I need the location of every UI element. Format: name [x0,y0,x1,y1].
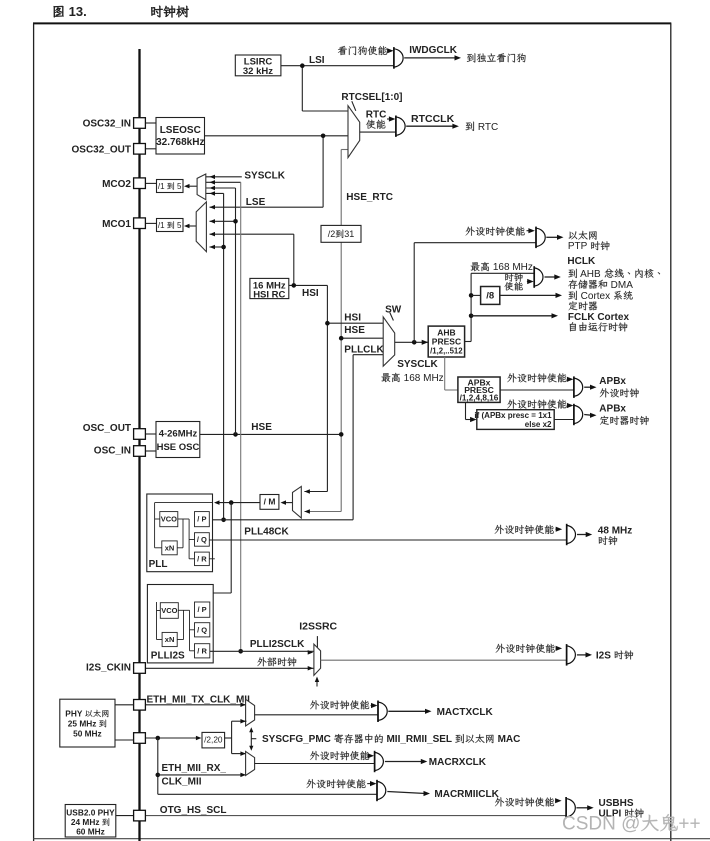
svg-text:/ P: / P [198,605,207,614]
wire OSC32_IN to LSEOSC [146,122,157,124]
label SYSCLK [397,359,438,370]
svg-text:/ M: / M [264,497,276,507]
wire 48M out [577,534,588,536]
svg-text:IWDGCLK: IWDGCLK [409,45,458,56]
svg-text:RTCCLK: RTCCLK [411,113,455,125]
svg-text:MACRMIICLK: MACRMIICLK [434,789,499,800]
pin OSC_IN [134,446,146,457]
wire OSC_OUT to box [146,433,157,435]
label RTC enable [366,110,387,121]
box /M divider [260,495,279,510]
svg-text:31: 31 [344,229,354,239]
wire MACRMIICLK out [387,792,425,794]
and-gate USBHS [566,799,575,817]
box divider /2,20 [202,732,225,748]
svg-text:HSE: HSE [344,325,365,336]
label peripheral clock enable PTP [466,227,525,236]
and-gate MACRMII [377,781,386,799]
svg-text:PLL48CK: PLL48CK [244,527,289,538]
wire AHB down to APBx [444,357,446,390]
label HSI near box [302,288,319,299]
label PLLI2SCLK [250,639,305,650]
arrow TX enable [371,705,373,707]
box MCO1 divider /1 to 5 [157,219,184,232]
wire SYSCLK out of SW [395,341,429,343]
label MACRMIICLK [434,789,499,800]
svg-text:LSEOSC: LSEOSC [160,125,201,136]
wire IWDGCLK out [404,57,457,59]
wire APBx timer out [584,414,592,417]
svg-text:RTCSEL[1:0]: RTCSEL[1:0] [341,92,402,103]
svg-text:/1,2,..512: /1,2,..512 [430,346,463,355]
wire PLLCLK to SW [209,519,353,521]
and-gate MACRX [375,752,384,770]
svg-text:32.768kHz: 32.768kHz [156,137,204,148]
label ETH_MII_RX_ [162,763,227,774]
title figure caption [54,4,87,19]
and-gate 48MHz [567,525,576,543]
wire MCO2 pin to divider [146,182,157,184]
wire PTP out [546,236,559,238]
svg-text:HSE OSC: HSE OSC [157,442,200,453]
label OTG_HS_SCL [160,805,227,816]
svg-text:MCO1: MCO1 [102,219,131,230]
label external clock [257,657,296,666]
select MII_RMII_SEL [250,730,252,749]
PLLI2S internal input route [156,602,158,640]
svg-text:32 kHz: 32 kHz [243,66,273,77]
wire MACRXCLK out [385,761,423,763]
svg-text:PHY: PHY [65,708,84,718]
svg-text:HSI RC: HSI RC [253,290,285,301]
wire LSE [205,135,349,137]
svg-text:13.: 13. [65,4,87,19]
wire OSC32_OUT to LSEOSC [146,148,157,150]
label I2SSRC [299,621,337,633]
label LSI [309,55,325,66]
svg-text:MII_RMII_SEL: MII_RMII_SEL [384,734,455,745]
wire APBx PRESC to if-box [465,402,467,419]
wire ETH TX clk [146,704,247,706]
svg-text:OSC_OUT: OSC_OUT [83,423,131,434]
box VCO PLLI2S [160,603,178,619]
wire HSE_RTC riser [340,150,342,512]
svg-text:if (APBx presc = 1x1: if (APBx presc = 1x1 [474,411,552,420]
box /8 [481,287,500,305]
label peripheral clock enable I2S [496,644,555,653]
svg-text:/2: /2 [328,229,336,239]
pin ETH TX [134,700,146,711]
svg-text:APBx: APBx [599,376,626,387]
watermark CSDN [562,814,701,835]
label USBHS ULPI clock [599,798,634,809]
mux SW system clock [383,317,395,366]
wire HSI net [289,284,328,286]
wire HCLK out [545,276,557,278]
svg-text:OSC32_IN: OSC32_IN [83,119,131,130]
svg-text:168 MHz: 168 MHz [490,262,533,273]
svg-text:RTC: RTC [475,122,498,133]
chip boundary bus [138,49,140,841]
PLLI2S internal spine [178,609,189,611]
arrow RX enable [371,755,372,757]
wire /M to PLL [216,502,260,504]
arrow RMII enable [367,783,372,785]
label APBx peripheral clock [599,376,626,387]
svg-text:CLK_MII: CLK_MII [162,776,202,787]
pin OSC32_IN [134,118,146,129]
box AHB PRESC [428,326,464,357]
block PLL [147,494,213,572]
wire USBHS out [576,807,589,809]
label peripheral clock enable RMII [306,779,365,788]
svg-text:HSI: HSI [344,313,361,324]
mux ETH TX [246,699,255,726]
stub /R PLL [209,558,215,560]
wire MCO PLLI2S riser [206,181,241,183]
svg-text:PLLI2S: PLLI2S [151,651,185,662]
arrow I2S enable [556,647,559,649]
svg-text:LSE: LSE [246,197,266,208]
wire MACTXCLK out [388,710,427,712]
label peripheral clock enable RX [310,751,369,760]
svg-text:Cortex: Cortex [578,291,613,302]
svg-text:ETH_MII_TX_CLK_MII: ETH_MII_TX_CLK_MII [147,694,251,705]
label peripheral clock enable APBx1 [507,373,566,382]
pin OTG_HS [134,810,146,821]
PLL internal input route [155,502,213,504]
wire RX mux out [255,763,375,765]
wire if-box out [554,419,574,421]
and-gate MACTX [378,702,387,720]
select tick RTCSEL [352,101,356,111]
svg-text:MACTXCLK: MACTXCLK [437,707,494,718]
label RTCCLK [411,113,455,125]
svg-text:HCLK: HCLK [567,256,596,267]
svg-text:I2S_CKIN: I2S_CKIN [86,663,131,674]
wire to /8 divider [471,294,481,296]
arrow PTP enable [527,230,530,232]
label MACRXCLK [429,757,487,768]
label watchdog enable [338,46,387,55]
label HSE SW input [344,325,365,336]
svg-text:/2,20: /2,20 [204,735,223,745]
label clock enable HCLK [505,273,523,282]
arrow APBx2 enable [568,405,570,407]
label LSE at MCO1 [246,197,266,208]
mux MCO1 [196,202,206,252]
mux RTC source select [348,106,360,158]
arrow MCO2 mux to divider [187,185,198,187]
label ethernet PTP clock [569,231,597,240]
wire PHY to pin1 [115,704,134,706]
PLL internal spine [178,518,189,520]
wire PLL48CK [209,539,566,541]
label peripheral clock enable TX [310,700,369,709]
wire external clock [146,667,314,669]
svg-text:/8: /8 [486,291,494,302]
svg-text:SW: SW [385,304,402,315]
frame border [33,22,671,24]
arrow USB enable [556,800,558,802]
label HCLK description [567,256,596,267]
and-gate APBx peripheral [574,378,583,396]
arrows MCO2 mux inputs [210,175,216,180]
label ETH_MII_TX_CLK_MII [147,694,251,705]
wire cortex systick [500,294,558,296]
label PLLCLK SW input [344,344,384,355]
wire MCO HSE riser [206,187,236,189]
label HSE_RTC [346,192,393,203]
svg-text:4-26MHz: 4-26MHz [159,428,198,439]
svg-text:PLLCLK: PLLCLK [344,344,384,355]
svg-text:LSI: LSI [309,55,325,66]
and-gate HCLK [534,268,543,286]
wire pin2 to /2,20 [146,737,198,739]
label to independent watchdog [467,53,526,62]
svg-text:SYSCLK: SYSCLK [397,359,438,370]
select tick SW [390,313,394,321]
svg-text:48 MHz: 48 MHz [598,526,632,537]
svg-text:VCO: VCO [161,606,177,615]
wire TX mux out [255,714,378,716]
wire LSI [281,65,394,67]
box /R PLL [195,552,210,566]
svg-text:xN: xN [165,543,175,552]
svg-text:/ P: / P [197,515,206,524]
box /P PLLI2S [195,602,210,617]
mux I2S source [314,644,321,675]
pin MCO1 [134,218,146,229]
label IWDGCLK [409,45,458,56]
label FCLK Cortex [568,312,630,323]
label peripheral clock enable USB [495,797,554,806]
label APBx timer clock [599,404,626,415]
svg-text:++: ++ [678,814,700,835]
svg-text:MAC: MAC [495,734,521,745]
wire OTG_HS_SCL [146,815,567,817]
wire RTCCLK out [406,125,454,127]
pin ETH RX [134,733,146,744]
pin OSC32_OUT [134,144,146,155]
wire USB PHY to pin [116,815,134,817]
wire SW HSE input [341,337,383,339]
wire /M branch to PLLI2S [230,503,232,593]
and-gate IWDG [394,49,403,67]
svg-text:MCO2: MCO2 [102,179,131,190]
box /Q PLL [195,533,210,547]
mux PLL source [293,486,302,518]
mux MCO2 [197,174,206,200]
svg-text:PRESC: PRESC [432,337,461,347]
arrow MCO1 mux to divider [187,225,197,227]
block PLLI2S [147,585,213,663]
svg-text:/1: /1 [158,221,167,230]
svg-text:50 MHz: 50 MHz [73,728,102,738]
svg-text:USB2.0 PHY: USB2.0 PHY [66,807,115,817]
box if APBx presc [477,410,554,430]
svg-text:APBx: APBx [599,404,626,415]
box divider /2 to 31 [321,225,361,242]
wire /2,20 split [225,737,232,739]
wire PLLI2SCLK [210,650,314,652]
svg-text:HSE: HSE [251,422,272,433]
box APBx PRESC [458,377,500,402]
svg-text:168 MHz: 168 MHz [401,373,444,384]
box USB2.0 PHY [65,805,116,838]
arrow HCLK enable [527,281,530,283]
label max 168MHz under SYSCLK [382,373,444,384]
label 48 MHz clock [598,526,632,537]
svg-text:FCLK Cortex: FCLK Cortex [568,312,630,323]
box xN PLLI2S [162,632,177,646]
pin MCO2 [134,178,146,189]
svg-text:25 MHz: 25 MHz [68,718,99,728]
label peripheral clock enable 48M [495,525,554,534]
box HSI RC [250,278,289,298]
wire I2S out [577,654,588,656]
label I2S clock [596,650,633,661]
and-gate RTC [396,117,405,135]
label HSE [251,422,272,433]
arrow stub below I2S mux [316,679,318,687]
and-gate ethernet PTP [536,228,545,246]
and-gate APBx timer [574,405,583,423]
svg-text:5: 5 [175,221,182,230]
label HSI SW input [344,313,361,324]
svg-text:AHB: AHB [578,269,604,280]
box /R PLLI2S [195,644,210,658]
label MACTXCLK [437,707,494,718]
arrow watchdog enable [389,50,391,52]
wire MCO1 pin to divider [146,222,157,224]
svg-text:OSC_IN: OSC_IN [94,446,131,457]
label to RTC [466,122,499,133]
svg-text:/ R: / R [197,646,207,655]
arrows MCO1 mux inputs [210,205,216,210]
label PLL48CK [244,527,289,538]
svg-text:VCO: VCO [161,515,177,524]
wire HSE main [200,433,341,435]
wire FCLK [471,315,554,317]
svg-text:/ R: / R [197,554,207,563]
svg-text:60 MHz: 60 MHz [76,826,105,836]
box /P PLL [195,512,210,527]
svg-text:else x2: else x2 [525,420,552,429]
label peripheral clock enable APBx2 [507,399,566,408]
svg-text:OTG_HS_SCL: OTG_HS_SCL [160,805,227,816]
svg-text:RTC: RTC [366,110,387,121]
box xN PLL [162,541,177,555]
label CLK_MII [162,776,202,787]
svg-text:OSC32_OUT: OSC32_OUT [72,144,131,155]
arrows PLL source mux inputs [304,489,310,494]
svg-text:24 MHz: 24 MHz [71,817,102,827]
box HSE OSC [156,422,200,458]
wire ETH RX clk [158,774,247,776]
svg-text:DMA: DMA [608,280,633,291]
svg-text:I2S: I2S [596,650,614,661]
wire OSC_IN to box [146,450,157,452]
svg-text:MACRXCLK: MACRXCLK [429,757,487,768]
svg-text:xN: xN [165,635,175,644]
svg-text:/1,2,4,8,16: /1,2,4,8,16 [460,394,499,403]
box /Q PLLI2S [195,623,210,637]
wire MCO PLL riser [206,192,224,194]
svg-text:I2SSRC: I2SSRC [299,621,337,633]
wire mux to /M [284,502,293,504]
and-gate I2S [567,646,576,664]
pin OSC_OUT [134,429,146,440]
box LSIRC [235,55,281,76]
mux ETH RX [246,751,255,775]
wire RTC mux out [360,131,396,133]
svg-text:ETH_MII_RX_: ETH_MII_RX_ [162,763,227,774]
label SYSCLK at MCO2 [244,171,285,182]
wire PHY to pin2 [115,739,134,741]
wire I2S mux out [321,659,567,661]
label SYSCFG_PMC MII_RMII_SEL [262,734,520,745]
svg-text:PTP: PTP [568,241,590,252]
svg-text:/ Q: / Q [197,625,207,634]
pin I2S_CKIN [134,663,146,674]
arrow 48M enable [555,528,558,530]
svg-text:HSE_RTC: HSE_RTC [346,192,393,203]
svg-text:SYSCFG_PMC: SYSCFG_PMC [262,734,334,745]
svg-text:/1: /1 [158,182,167,191]
svg-text:PLLI2SCLK: PLLI2SCLK [250,639,305,650]
wire APBx out to gate [500,389,574,391]
svg-text:5: 5 [175,182,182,191]
box VCO PLL [160,512,178,527]
svg-text:SYSCLK: SYSCLK [244,171,285,182]
arrow RTC enable [387,118,391,120]
label SW [385,304,402,315]
arrow APBx1 enable [568,378,570,380]
bottom rule [33,838,710,840]
svg-text:CSDN @: CSDN @ [562,814,640,835]
svg-text:PLL: PLL [149,559,168,570]
select wire I2SSRC [316,636,318,649]
label RTCSEL[1:0] [341,92,402,103]
svg-text:/ Q: / Q [197,535,207,544]
box PHY ethernet [60,699,115,747]
wire MCO2 SYSCLK stub [206,176,242,178]
svg-text:HSI: HSI [302,288,319,299]
wire APBx peripheral out [584,386,592,388]
box LSEOSC [156,118,205,155]
wire RX riser [157,738,159,794]
wire AHB out to HCLK riser [465,341,472,343]
label max 168 MHz [471,262,533,273]
box MCO2 divider /1 to 5 [157,180,184,193]
